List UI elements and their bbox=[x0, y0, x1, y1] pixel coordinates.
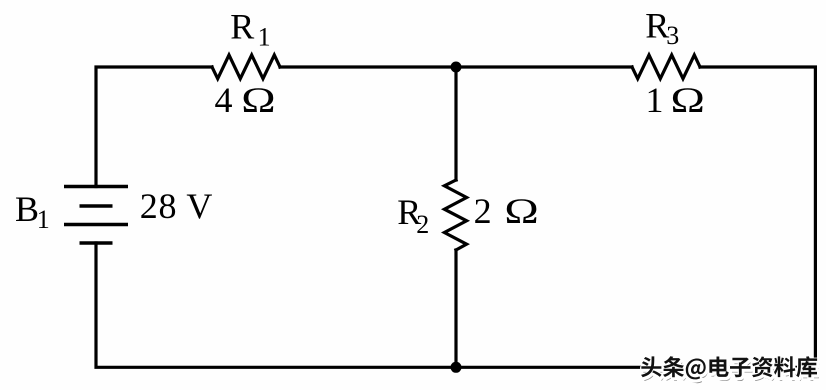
svg-text:4: 4 bbox=[215, 80, 233, 120]
svg-text:Ω: Ω bbox=[241, 80, 275, 120]
svg-text:Ω: Ω bbox=[671, 80, 705, 120]
svg-text:1: 1 bbox=[258, 22, 271, 51]
node 2 junction dot bbox=[451, 362, 462, 373]
resistor R3 bbox=[632, 55, 700, 79]
battery B1 short plate bbox=[80, 204, 113, 207]
svg-text:2: 2 bbox=[416, 210, 429, 239]
wire: battery positive terminal up left side and across to R1 bbox=[96, 67, 212, 187]
svg-text:1: 1 bbox=[37, 205, 50, 234]
wire: node 1 down to R2 bbox=[454, 67, 457, 180]
svg-text:B: B bbox=[15, 189, 39, 229]
battery B1 long plate bbox=[64, 223, 128, 226]
watermark "toutiao @ dianzi ziliaoku" bbox=[641, 356, 819, 383]
svg-text:28 V: 28 V bbox=[140, 186, 214, 226]
resistor R1 bbox=[212, 55, 280, 79]
wire: R3 to top-right corner and down right side bbox=[700, 67, 815, 367]
svg-text:2: 2 bbox=[474, 191, 492, 231]
svg-text:R: R bbox=[230, 6, 254, 46]
battery B1 short plate (bottom, negative) bbox=[80, 241, 113, 244]
svg-text:3: 3 bbox=[666, 21, 679, 50]
wire: bottom rail back to battery negative bbox=[96, 243, 815, 367]
svg-text:1: 1 bbox=[646, 80, 664, 120]
resistor R2 bbox=[444, 180, 466, 250]
battery B1 long plate (top, positive) bbox=[64, 185, 128, 188]
node 1 junction dot bbox=[451, 62, 462, 73]
wire: R2 down to node 2 bbox=[454, 250, 457, 367]
svg-text:Ω: Ω bbox=[504, 191, 538, 231]
wire: R1 to node 1 bbox=[280, 65, 632, 68]
